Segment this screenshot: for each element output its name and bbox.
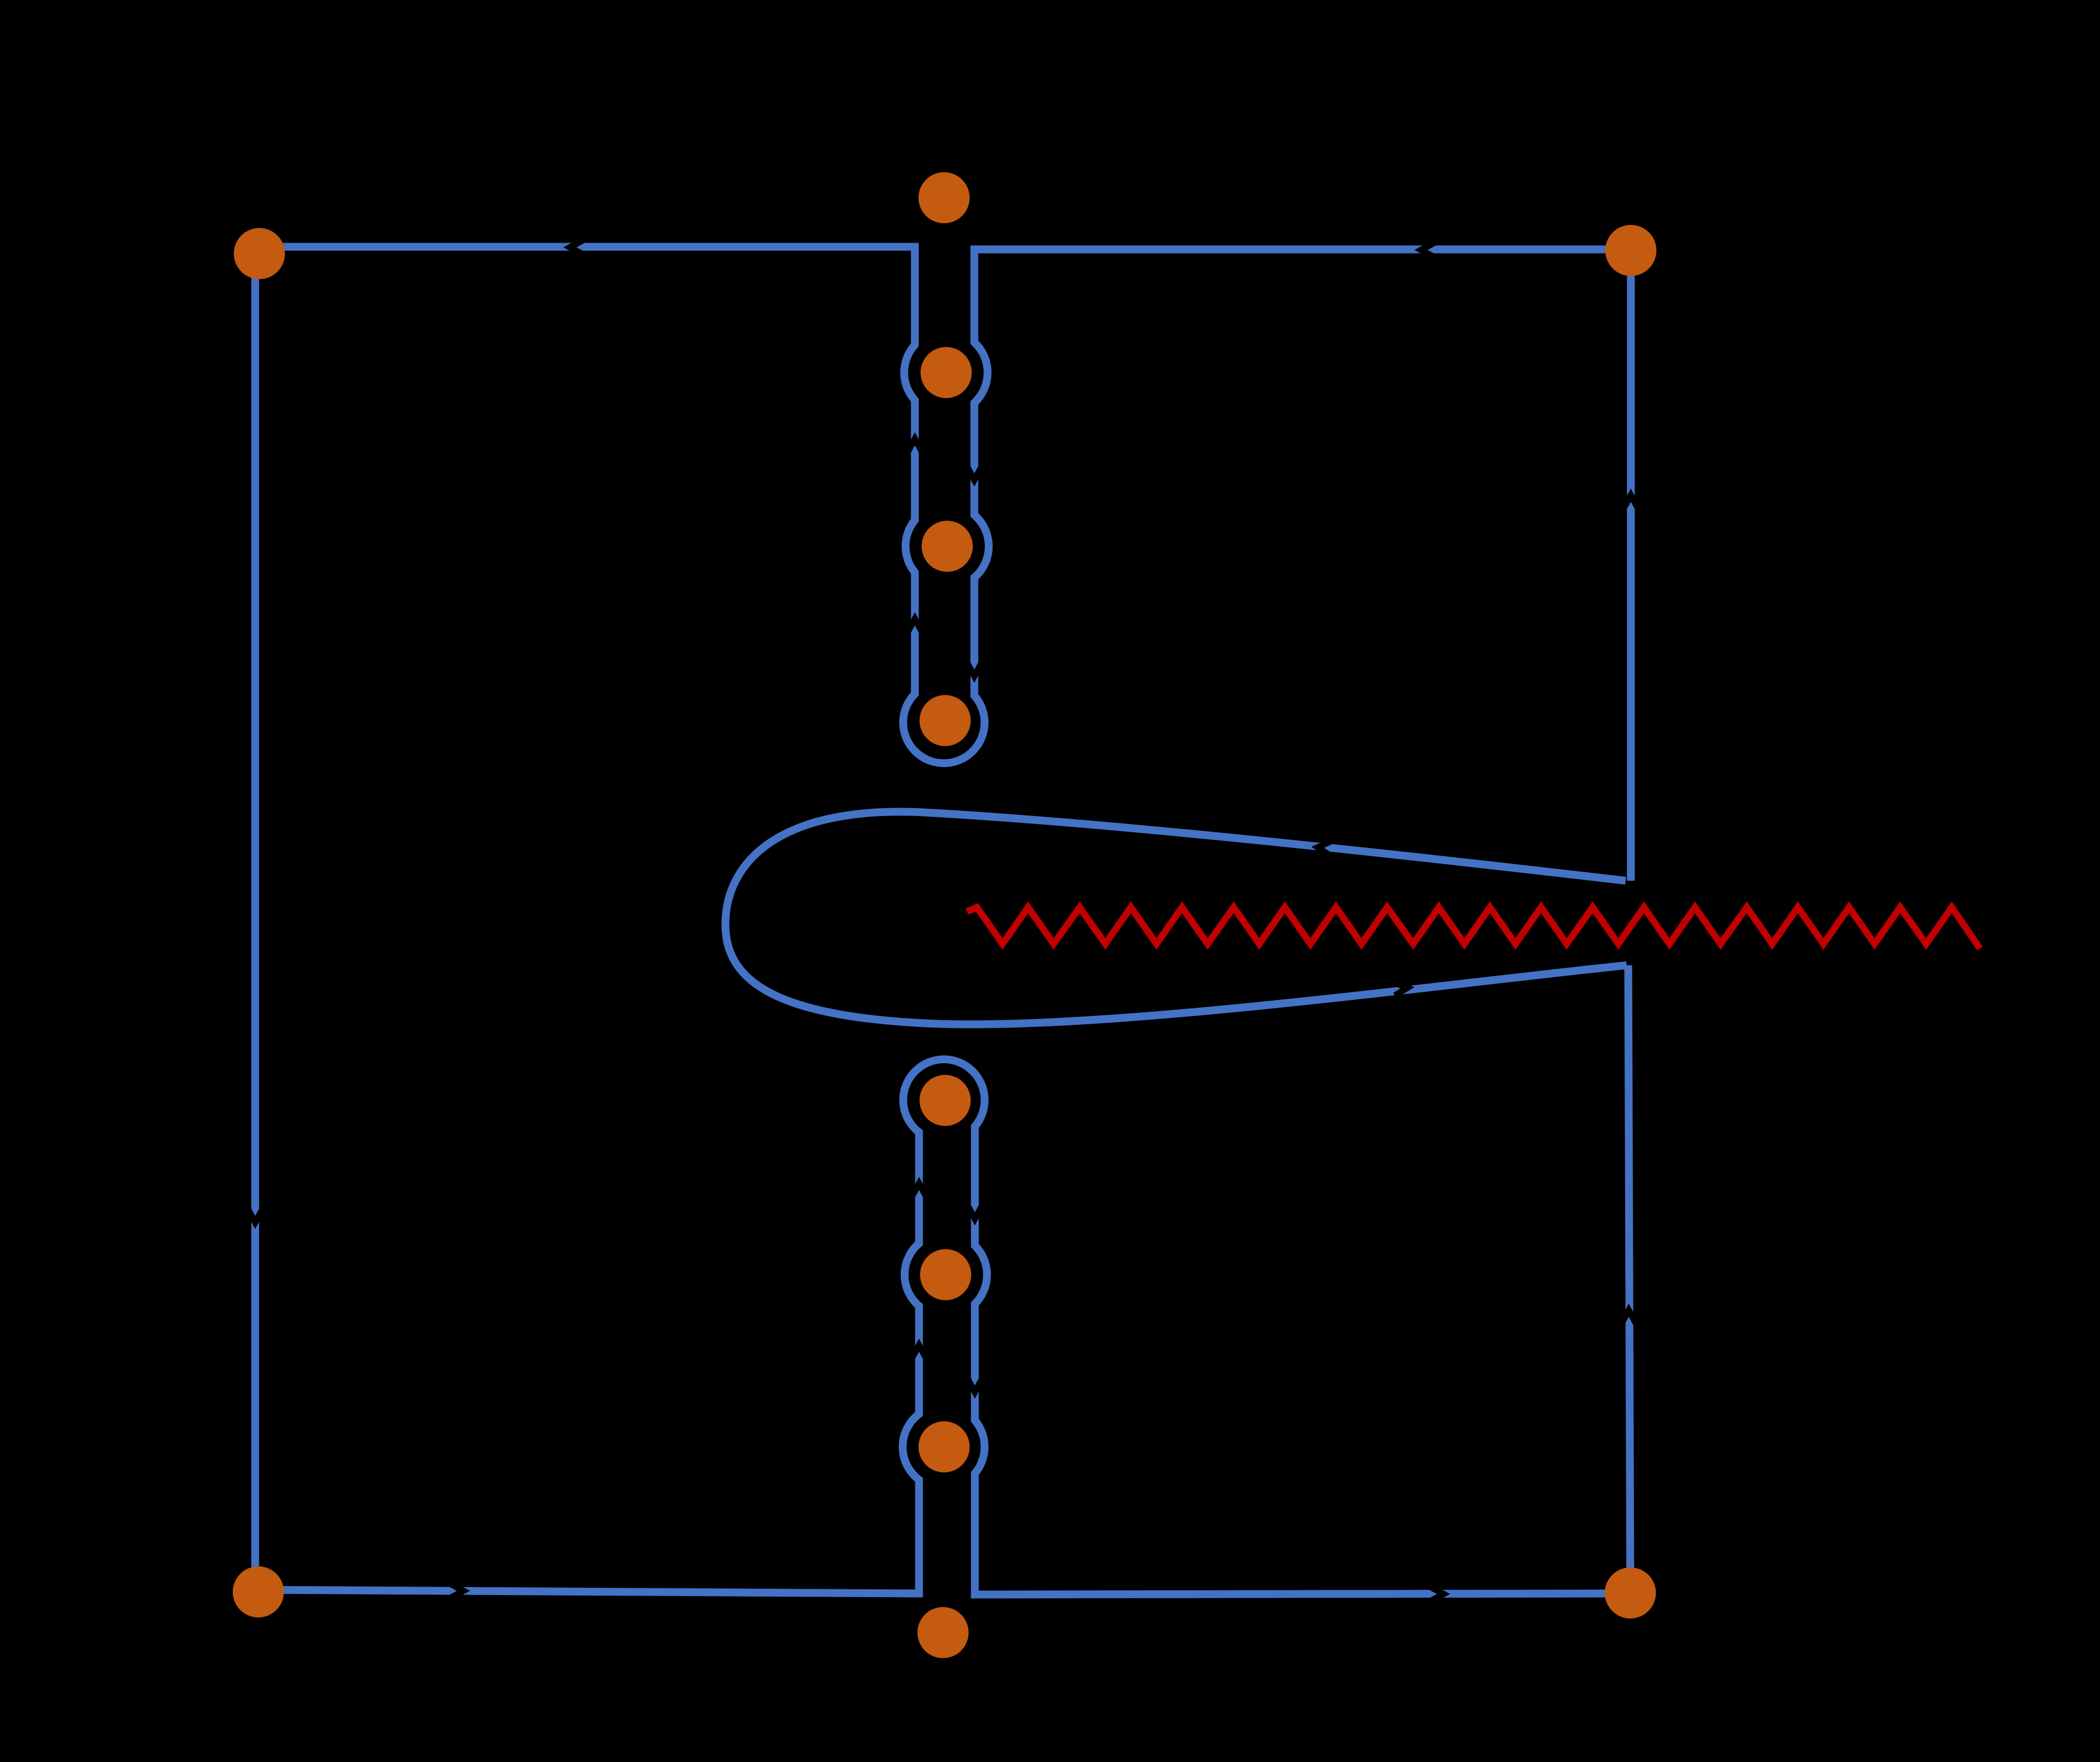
arrow: lower channel right wall (lower), pointing down bbox=[968, 1379, 982, 1392]
arrow: upper channel left wall (lower), pointing up bbox=[908, 439, 922, 452]
arrow: teardrop lower lip, pointing right bbox=[1394, 982, 1407, 996]
pole: top-left corner node bbox=[234, 228, 285, 279]
arrow: top edge right segment, pointing left bbox=[1421, 243, 1435, 257]
branch cut (red zigzag) bbox=[967, 907, 1980, 949]
pole: upper channel second bbox=[922, 521, 973, 572]
pole: upper channel third (U-turn) bbox=[920, 695, 971, 746]
pole: upper channel first bbox=[921, 347, 972, 398]
pole: bottom-right corner node bbox=[1605, 1567, 1656, 1619]
pole: lower channel first (below teardrop) bbox=[920, 1075, 971, 1126]
wire: right edge lower segment bbox=[1628, 965, 1630, 1593]
wire: top edge + upper pole channel (contour) bbox=[259, 247, 1631, 763]
arrow: lower channel left wall (lower), pointing up bbox=[912, 1345, 926, 1359]
arrow: top edge left segment, pointing left bbox=[570, 240, 583, 255]
wire: Hankel loop around branch point (teardrop) bbox=[725, 812, 1627, 1024]
arrow: upper channel right wall (lower), pointing down bbox=[967, 663, 982, 676]
pole: top-right corner node bbox=[1605, 225, 1656, 276]
pole: lower channel second bbox=[920, 1249, 971, 1300]
wire: bottom edge + lower pole channel (contour) bbox=[258, 1059, 1630, 1595]
pole: lower channel third bbox=[918, 1421, 970, 1472]
wire: left edge bbox=[252, 254, 259, 1592]
arrow: bottom edge left segment, pointing right bbox=[450, 1584, 463, 1598]
arrow: lower channel right wall (upper), pointing down bbox=[968, 1205, 982, 1219]
arrow: right edge upper, pointing up bbox=[1624, 495, 1638, 509]
arrow: teardrop upper lip, pointing left bbox=[1318, 841, 1331, 856]
arrow: bottom edge right segment, pointing right bbox=[1430, 1587, 1443, 1601]
wire: right edge upper segment bbox=[1627, 250, 1635, 881]
arrow: upper channel left wall (upper), pointing up bbox=[908, 619, 922, 632]
pole: above top edge on imaginary axis bbox=[918, 172, 970, 223]
pole: bottom-left corner node bbox=[233, 1566, 284, 1617]
arrow: left edge, pointing down bbox=[248, 1209, 262, 1222]
arrow: lower channel left wall (upper), pointing up bbox=[912, 1183, 926, 1197]
arrow: right edge lower, pointing up bbox=[1621, 1310, 1636, 1324]
arrow: upper channel right wall (upper), pointing down bbox=[967, 466, 982, 480]
pole: below bottom edge on imaginary axis bbox=[917, 1607, 969, 1658]
